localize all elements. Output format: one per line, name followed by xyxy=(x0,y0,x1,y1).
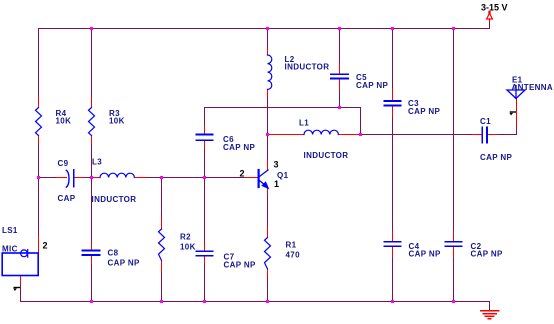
antenna E1 symbol xyxy=(507,90,525,99)
red component pins xyxy=(21,49,517,285)
capacitor C5 plates xyxy=(331,73,348,75)
pin number 1 (mic, rotated) xyxy=(13,288,20,292)
svg-text:CAP NP: CAP NP xyxy=(356,81,388,90)
capacitor C9 body (curved+flat plates) xyxy=(66,170,69,187)
wire bottom rail xyxy=(21,301,490,303)
svg-text:INDUCTOR: INDUCTOR xyxy=(285,63,330,72)
capacitor C8 pins xyxy=(91,243,93,250)
capacitor C1 pins xyxy=(472,134,482,136)
svg-text:10K: 10K xyxy=(56,117,72,126)
transistor Q1 pins xyxy=(246,177,258,179)
svg-text:CAP NP: CAP NP xyxy=(471,250,503,259)
svg-text:10K: 10K xyxy=(109,117,125,126)
mic LS1 box xyxy=(2,253,38,276)
svg-text:10K: 10K xyxy=(180,243,196,252)
wire V3 bottom segment xyxy=(161,272,163,302)
wire V2 top segment xyxy=(91,29,93,98)
svg-text:LS1: LS1 xyxy=(2,226,18,235)
resistor R3 body xyxy=(89,108,95,136)
capacitor C7 pins xyxy=(204,243,206,251)
svg-text:2: 2 xyxy=(43,241,48,251)
capacitor C1 plates xyxy=(481,128,483,143)
mic LS1 pins xyxy=(38,236,40,253)
capacitor C5 pins xyxy=(339,63,341,74)
wire V3 top segment xyxy=(161,178,163,219)
svg-text:CAP NP: CAP NP xyxy=(480,153,512,162)
wire V6 top segment xyxy=(339,29,341,64)
wire V8 bottom segment xyxy=(392,257,394,302)
inductor L1 body (4 loops up) xyxy=(304,130,338,134)
capacitor C6 plates xyxy=(197,133,213,135)
wire antenna drop xyxy=(516,126,518,135)
svg-text:MIC: MIC xyxy=(2,245,18,254)
wire V2 bottom segment xyxy=(91,264,93,302)
wire output row after C1 xyxy=(498,134,517,136)
ground symbol xyxy=(481,311,499,319)
wire tank top row xyxy=(205,107,361,109)
inductor L2 pins xyxy=(267,49,269,56)
wire V9 top segment xyxy=(453,29,455,232)
svg-text:CAP NP: CAP NP xyxy=(224,261,256,270)
wire V2 mid segment xyxy=(91,144,93,244)
power symbol 3-15V xyxy=(487,11,493,21)
resistor R4 pins xyxy=(38,98,40,108)
svg-text:2: 2 xyxy=(240,169,245,179)
svg-text:C9: C9 xyxy=(58,159,69,168)
wire V7 L1 right side xyxy=(360,108,362,135)
resistor R2 body xyxy=(159,229,165,261)
wire V4 top segment xyxy=(204,108,206,127)
svg-text:R1: R1 xyxy=(286,241,297,250)
svg-text:1: 1 xyxy=(274,179,279,189)
svg-text:ANTENNA: ANTENNA xyxy=(512,83,554,92)
capacitor C2 plates xyxy=(446,241,462,243)
capacitor C3 pins xyxy=(392,89,394,101)
wire base row L3 to Q1 xyxy=(146,177,246,179)
svg-text:C8: C8 xyxy=(108,249,119,258)
pin number 1 (antenna, rotated) xyxy=(509,112,516,115)
antenna E1 pin xyxy=(516,99,518,127)
resistor R1 body xyxy=(265,238,271,270)
capacitor C6 pins xyxy=(204,126,206,134)
svg-text:INDUCTOR: INDUCTOR xyxy=(92,195,137,204)
wire V1 top segment xyxy=(38,29,40,98)
wire mic pin1 lower xyxy=(20,284,22,302)
inductor L2 body (4 loops right) xyxy=(268,55,272,89)
wire V4 mid segment xyxy=(204,149,206,244)
wire V8 mid segment xyxy=(392,116,394,231)
wire power stub xyxy=(489,20,491,29)
svg-text:CAP NP: CAP NP xyxy=(409,250,441,259)
svg-text:L3: L3 xyxy=(92,158,102,167)
svg-text:3-15 V: 3-15 V xyxy=(481,3,508,13)
resistor R4 body xyxy=(36,108,42,136)
resistor R3 pins xyxy=(91,98,93,108)
mic symbol circle xyxy=(21,250,28,257)
capacitor C4 pins xyxy=(392,231,394,241)
svg-text:R2: R2 xyxy=(180,233,191,242)
svg-text:L1: L1 xyxy=(299,119,309,128)
wire V5 emitter segment xyxy=(267,194,269,227)
capacitor C3 plates xyxy=(385,100,401,102)
wire V4 bottom segment xyxy=(204,264,206,302)
resistor R1 pins xyxy=(267,227,269,238)
wire V8 top segment xyxy=(392,29,394,90)
svg-text:CAP NP: CAP NP xyxy=(223,143,255,152)
resistor R2 pins xyxy=(161,219,163,230)
svg-text:C1: C1 xyxy=(480,117,491,126)
svg-text:CAP: CAP xyxy=(58,194,76,203)
capacitor C9 pins xyxy=(56,177,67,179)
svg-text:INDUCTOR: INDUCTOR xyxy=(304,151,349,160)
svg-text:470: 470 xyxy=(286,251,301,260)
inductor L3 body (4 loops up) xyxy=(100,173,134,177)
wire V5 collector segment xyxy=(267,97,269,160)
wire V5 top segment xyxy=(267,29,269,49)
wire V9 bottom segment xyxy=(453,257,455,302)
svg-text:CAP NP: CAP NP xyxy=(108,259,140,268)
capacitor C7 plates xyxy=(197,250,213,252)
inductor L1 pins xyxy=(268,134,305,136)
wire top rail xyxy=(39,28,490,30)
wire base row segment xyxy=(39,177,57,179)
wire ground drop xyxy=(489,302,491,311)
wire V1 mid segment xyxy=(38,144,40,237)
inductor L3 pins xyxy=(92,177,101,179)
wire V6 bottom segment xyxy=(339,90,341,108)
wire V5 bottom segment xyxy=(267,277,269,302)
capacitor C4 plates xyxy=(385,241,401,243)
svg-text:CAP NP: CAP NP xyxy=(408,107,440,116)
transistor Q1 body xyxy=(259,170,268,187)
capacitor C8 plates xyxy=(83,249,100,251)
wire output row xyxy=(361,134,472,136)
capacitor C2 pins xyxy=(453,231,455,241)
svg-text:3: 3 xyxy=(274,160,279,170)
